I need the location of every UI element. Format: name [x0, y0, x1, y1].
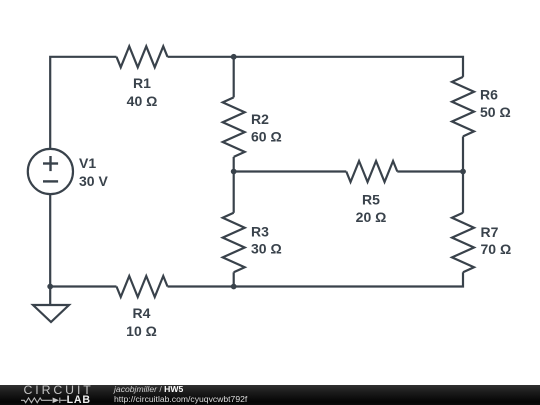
- svg-text:20 Ω: 20 Ω: [356, 209, 387, 225]
- node junction bottom-left: [47, 284, 53, 290]
- wire top rail left segment + top-left corner: [50, 57, 116, 149]
- resistor R7: [452, 213, 474, 272]
- wire right vertical between R6 and node: [462, 136, 464, 171]
- svg-text:60 Ω: 60 Ω: [251, 129, 282, 145]
- svg-text:10 Ω: 10 Ω: [126, 323, 157, 339]
- wire bottom rail left segment: [50, 285, 116, 287]
- wire bottom rail right segment + bottom-right corner into R7 lead: [168, 272, 464, 286]
- svg-text:R5: R5: [362, 192, 380, 208]
- resistor R5: [346, 161, 397, 182]
- svg-text:R6: R6: [480, 87, 498, 103]
- wire middle vertical lead to R3: [233, 172, 235, 213]
- resistor R2: [223, 97, 245, 156]
- wire middle vertical upper lead: [233, 57, 235, 98]
- node junction middle left: [231, 169, 237, 175]
- wire left vertical lower: [49, 194, 51, 286]
- svg-text:R1: R1: [133, 75, 151, 91]
- resistor R6: [452, 77, 474, 137]
- wire top rail middle segment + top-right corner into R6 lead: [168, 57, 464, 77]
- resistor R1: [117, 46, 168, 67]
- CircuitLab logo: [0, 383, 110, 405]
- svg-text:30 Ω: 30 Ω: [251, 241, 282, 257]
- svg-text:V1: V1: [79, 155, 96, 171]
- svg-text:R7: R7: [481, 224, 499, 240]
- resistor R4: [117, 276, 168, 297]
- svg-text:R4: R4: [133, 305, 151, 321]
- svg-text:LAB: LAB: [67, 394, 91, 405]
- resistor R3: [223, 213, 245, 272]
- node junction middle right: [460, 169, 466, 175]
- svg-text:R3: R3: [251, 224, 269, 240]
- wire middle vertical between R2 and node: [233, 157, 235, 172]
- ground: [33, 287, 69, 323]
- svg-text:70 Ω: 70 Ω: [481, 241, 512, 257]
- wire middle vertical bottom lead: [233, 272, 235, 286]
- wire middle row left segment: [234, 170, 347, 172]
- credit text: [114, 384, 247, 404]
- wire middle row right segment: [397, 170, 463, 172]
- footer bar: [0, 385, 540, 405]
- node junction bottom middle: [231, 284, 237, 290]
- svg-text:R2: R2: [251, 111, 269, 127]
- svg-text:50 Ω: 50 Ω: [480, 104, 511, 120]
- voltage source V1: [28, 149, 73, 194]
- node junction top middle: [231, 54, 237, 60]
- svg-text:30 V: 30 V: [79, 173, 108, 189]
- svg-text:40 Ω: 40 Ω: [127, 93, 158, 109]
- wire right vertical lead to R7: [462, 172, 464, 213]
